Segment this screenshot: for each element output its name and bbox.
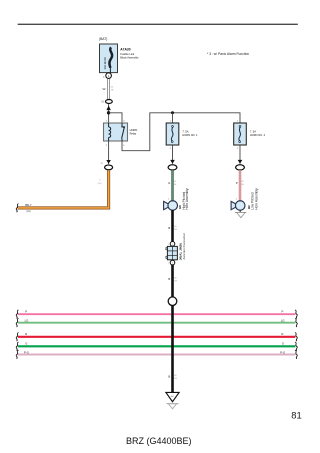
svg-text:7. 5A: 7. 5A bbox=[182, 130, 188, 134]
svg-text:LG: LG bbox=[281, 318, 285, 322]
svg-text:81: 81 bbox=[291, 409, 301, 420]
svg-text:P: P bbox=[236, 181, 238, 185]
svg-text:Horn Assembly: Horn Assembly bbox=[185, 188, 189, 210]
svg-text:P: P bbox=[282, 309, 284, 313]
svg-text:R: R bbox=[25, 332, 27, 336]
svg-text:B: B bbox=[168, 277, 170, 281]
svg-text:B: B bbox=[168, 226, 170, 230]
svg-text:HORN: HORN bbox=[130, 128, 138, 132]
svg-text:30A MAIN: 30A MAIN bbox=[103, 57, 107, 69]
svg-text:R: R bbox=[281, 332, 283, 336]
svg-text:P: P bbox=[25, 309, 27, 313]
svg-text:(BAT): (BAT) bbox=[99, 37, 107, 41]
svg-text:P-G: P-G bbox=[24, 350, 29, 354]
svg-text:7: 7 bbox=[168, 244, 169, 246]
svg-text:HORN NO. 2: HORN NO. 2 bbox=[250, 133, 266, 137]
svg-text:Block Assembly: Block Assembly bbox=[120, 55, 139, 59]
svg-text:P-G: P-G bbox=[280, 350, 285, 354]
svg-text:BR-Y: BR-Y bbox=[25, 203, 32, 207]
svg-text:7: 7 bbox=[168, 263, 169, 265]
svg-text:G: G bbox=[168, 181, 170, 185]
svg-text:A7A30: A7A30 bbox=[120, 47, 130, 51]
svg-text:Relay: Relay bbox=[130, 132, 137, 136]
svg-text:W: W bbox=[102, 87, 105, 91]
svg-text:(1E): (1E) bbox=[26, 210, 31, 213]
svg-text:Junction Connector: Junction Connector bbox=[182, 233, 186, 260]
svg-text:HORN NO. 1: HORN NO. 1 bbox=[182, 133, 198, 137]
svg-text:B: B bbox=[168, 375, 170, 379]
svg-text:1E: 1E bbox=[101, 101, 104, 103]
svg-text:BRZ (G4400BE): BRZ (G4400BE) bbox=[126, 436, 192, 446]
svg-text:LG: LG bbox=[25, 318, 29, 322]
svg-text:G: G bbox=[282, 342, 284, 346]
svg-text:Fusible Link: Fusible Link bbox=[120, 52, 135, 56]
svg-text:(1E): (1E) bbox=[98, 183, 102, 185]
svg-text:Horn Assembly: Horn Assembly bbox=[254, 188, 258, 210]
svg-text:EC: EC bbox=[171, 396, 174, 398]
svg-text:7. 5A: 7. 5A bbox=[250, 130, 256, 134]
svg-text:G: G bbox=[25, 342, 27, 346]
svg-text:* 3 : w/ Panic Alarm Function: * 3 : w/ Panic Alarm Function bbox=[207, 52, 249, 56]
